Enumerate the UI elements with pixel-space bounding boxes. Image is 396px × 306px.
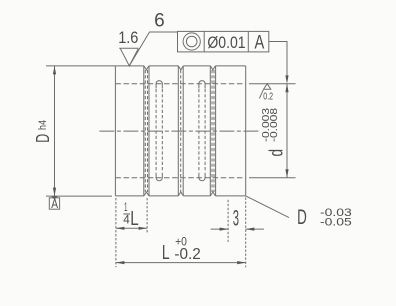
arrow 3 left <box>220 228 229 231</box>
arrow quarter-L right <box>139 227 148 230</box>
part outline top edge (with notch gaps) <box>115 65 245 67</box>
left extension line bottom <box>46 195 112 197</box>
svg-text:-0.05: -0.05 <box>320 217 352 229</box>
arrow FCF leader down <box>285 75 288 83</box>
groove 1 notch bottom <box>144 192 149 196</box>
svg-text:D: D <box>297 206 307 229</box>
dimension line 3 <box>211 228 264 230</box>
svg-text:d: d <box>267 149 288 157</box>
slot 2 bottom arc <box>199 173 205 181</box>
svg-text:Ø0.01: Ø0.01 <box>207 33 245 52</box>
svg-text:6: 6 <box>154 10 165 32</box>
leader for D tolerance <box>246 196 289 218</box>
arrow d bottom <box>285 169 288 178</box>
part left edge <box>114 66 116 196</box>
groove 2 hidden line <box>180 70 182 192</box>
label D with tolerances <box>297 206 352 229</box>
arrow quarter-L left <box>116 227 125 230</box>
slot 2 hidden sides <box>199 89 205 173</box>
groove 3 hidden lines <box>212 70 214 192</box>
dimension line L <box>116 262 246 264</box>
groove 2 edge lines <box>178 66 183 196</box>
feature control frame box <box>178 31 269 52</box>
label D h4 (rotated) <box>33 120 53 143</box>
arrow 3 right <box>246 228 255 231</box>
groove 2 notch top <box>178 66 183 70</box>
arrow D top <box>53 66 56 75</box>
dimension line quarter L <box>116 227 147 229</box>
part right edge <box>245 66 247 196</box>
extension line quarter L <box>146 198 148 234</box>
groove 3 notch bottom <box>210 192 215 196</box>
svg-text:L: L <box>162 242 170 264</box>
datum feature symbol A <box>49 196 59 211</box>
dimension line d <box>286 84 288 178</box>
svg-text:-0.008: -0.008 <box>269 107 280 142</box>
extension line below right edge <box>245 198 247 268</box>
dimension line D <box>54 66 56 196</box>
groove 2 notch bottom <box>178 192 183 196</box>
groove 1 notch top <box>144 66 149 70</box>
svg-text:3: 3 <box>233 206 239 231</box>
svg-text:1.6: 1.6 <box>118 28 138 47</box>
svg-text:0.2: 0.2 <box>263 91 273 102</box>
extension line groove offset <box>227 200 229 242</box>
groove 1 edge lines <box>144 66 149 196</box>
extension line below left edge <box>115 198 117 267</box>
slot 1 bottom arc <box>156 173 162 181</box>
surface finish symbol 1.6 <box>119 48 138 66</box>
FCF cell dividers <box>204 31 248 52</box>
fraction 1/4 L <box>123 201 138 230</box>
surface finish symbol 0.2 <box>259 84 270 99</box>
svg-text:h4: h4 <box>37 120 49 130</box>
left extension line top <box>46 65 115 67</box>
groove 3 notch top <box>210 66 215 70</box>
svg-text:A: A <box>51 196 58 211</box>
arrow D bottom <box>53 188 56 197</box>
FCF leader to d dimension <box>269 42 287 76</box>
svg-text:D: D <box>33 134 53 143</box>
arrow L left <box>116 261 125 264</box>
label d with tolerances (rotated) <box>261 107 288 156</box>
arrow d top <box>285 84 288 93</box>
d extension line top <box>249 83 296 85</box>
svg-text:-0.2: -0.2 <box>174 246 200 263</box>
center line <box>99 130 259 132</box>
groove 1 hidden lines <box>145 70 147 192</box>
part outline bottom edge (with notch gaps) <box>115 195 245 197</box>
svg-text:1: 1 <box>124 201 128 214</box>
svg-text:L: L <box>130 208 138 230</box>
concentricity symbol <box>183 33 200 50</box>
slot 2 top arc <box>199 81 205 89</box>
d extension line bottom <box>249 177 296 179</box>
slot 1 hidden sides <box>156 89 162 173</box>
svg-text:A: A <box>255 32 265 53</box>
leader for 6 <box>129 32 177 66</box>
dimension L with tolerances <box>162 234 201 264</box>
bore hidden line top <box>115 83 245 85</box>
svg-text:4: 4 <box>123 214 130 227</box>
bore hidden line bottom <box>115 177 245 179</box>
slot 1 top arc <box>156 81 162 89</box>
arrow L right <box>237 261 246 264</box>
groove 3 edge lines <box>210 66 215 196</box>
